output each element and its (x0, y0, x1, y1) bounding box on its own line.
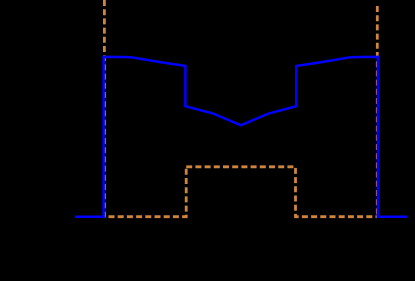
blue potential curve (75, 57, 407, 217)
dashed density step curve: left wall + left baseline + left bump wall (104, 0, 186, 217)
dashed density step curve: bump top + right bump wall + right baseline (186, 167, 377, 217)
dashed density step curve: right wall (376, 6, 379, 217)
